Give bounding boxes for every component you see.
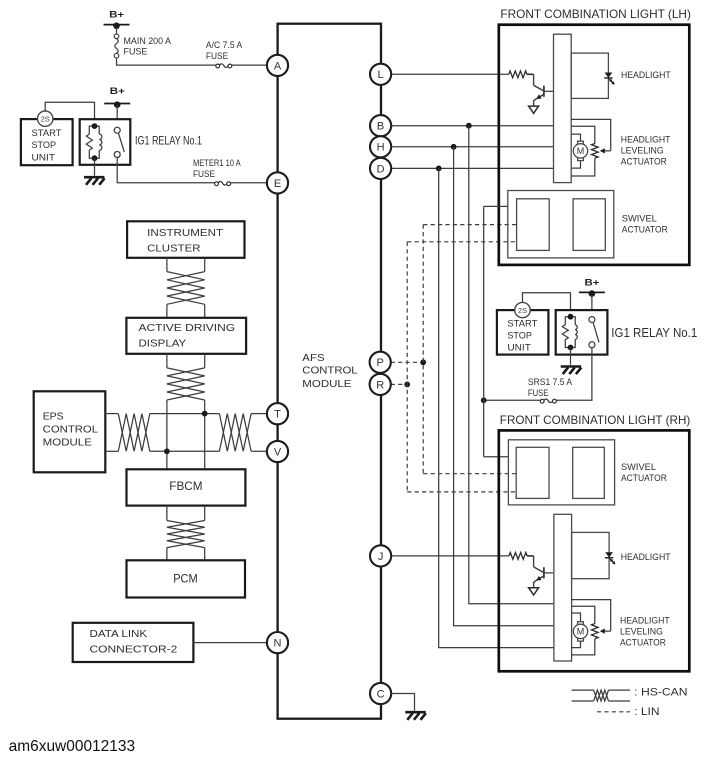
LIN to RH swivel (dashed)	[423, 473, 516, 475]
svg-text:MODULE: MODULE	[302, 378, 351, 390]
twisted pair HS-CAN (FBCM to PCM)	[167, 506, 205, 561]
label HEADLIGHT LEVELING ACTUATOR (LH)	[621, 134, 671, 166]
data link connector-2 box	[73, 623, 194, 662]
svg-text:INSTRUMENT: INSTRUMENT	[147, 227, 224, 239]
svg-text:D: D	[377, 163, 385, 175]
wire H branch down to RH	[454, 147, 554, 626]
label AFS CONTROL MODULE	[302, 352, 357, 390]
fuse METER1 10 A	[215, 182, 231, 186]
label DATA LINK CONNECTOR-2	[90, 628, 178, 656]
svg-text:E: E	[274, 178, 281, 190]
node N	[267, 632, 288, 653]
svg-text:B: B	[377, 121, 384, 133]
svg-text:IG1 RELAY No.1: IG1 RELAY No.1	[611, 325, 697, 340]
fuse SRS1 7.5 A	[540, 399, 556, 403]
headlight block (LH)	[571, 53, 608, 98]
svg-text:LEVELING: LEVELING	[620, 626, 663, 636]
motor (LH leveling)	[573, 141, 587, 160]
wire	[116, 106, 118, 127]
wire swivel feed (RH)	[484, 456, 509, 458]
label HEADLIGHT LEVELING ACTUATOR (RH)	[620, 615, 670, 647]
wire	[116, 27, 118, 34]
svg-text:STOP: STOP	[507, 331, 532, 341]
wire	[94, 158, 96, 175]
svg-text:B+: B+	[585, 277, 601, 288]
relay coil (right)	[562, 317, 577, 348]
swivel actuator outer box (RH)	[508, 440, 614, 505]
label START STOP UNIT (right)	[507, 319, 538, 353]
junction	[404, 382, 410, 388]
label ACTIVE DRIVING DISPLAY	[139, 322, 236, 349]
node H	[370, 136, 391, 157]
wire wiper feed (RH)	[572, 600, 611, 631]
svg-text:UNIT: UNIT	[32, 152, 56, 162]
wire	[556, 348, 592, 401]
battery terminal B+ (IG1 relay No.1 left)	[104, 86, 130, 108]
svg-text:am6xuw00012133: am6xuw00012133	[9, 738, 136, 755]
wire D branch down to RH	[439, 168, 554, 647]
svg-text:HEADLIGHT: HEADLIGHT	[620, 615, 670, 625]
svg-text:CONTROL: CONTROL	[43, 424, 98, 436]
node B	[370, 115, 391, 136]
wire motor feed (RH)	[572, 613, 581, 622]
wire pot feed (RH)	[572, 606, 595, 623]
label EPS CONTROL MODULE	[43, 411, 98, 449]
svg-text:2S: 2S	[41, 115, 50, 124]
wire pot return (RH)	[572, 639, 595, 655]
swivel actuator outer box (LH)	[508, 191, 614, 258]
swivel actuator coil 2 (LH)	[573, 199, 605, 251]
swivel actuator coil 1 (RH)	[516, 447, 549, 498]
svg-text:METER1 10 A: METER1 10 A	[193, 158, 241, 168]
svg-text:EPS: EPS	[43, 411, 64, 423]
label MAIN 200 A FUSE	[124, 36, 172, 57]
svg-text:IG1 RELAY No.1: IG1 RELAY No.1	[135, 135, 202, 147]
svg-text:SRS1 7.5 A: SRS1 7.5 A	[528, 377, 572, 387]
battery terminal B+ (main)	[104, 10, 130, 29]
svg-text:2S: 2S	[518, 306, 527, 315]
label START STOP UNIT (left)	[32, 128, 63, 162]
svg-text:START: START	[32, 128, 63, 138]
svg-text:ACTUATOR: ACTUATOR	[622, 224, 668, 234]
label METER1 10 A FUSE	[193, 158, 241, 179]
svg-text:R: R	[376, 379, 384, 391]
svg-text:MODULE: MODULE	[43, 437, 92, 449]
svg-text:FRONT COMBINATION LIGHT (RH): FRONT COMBINATION LIGHT (RH)	[500, 413, 691, 427]
node R	[370, 374, 391, 395]
relay switch (right)	[589, 317, 599, 348]
svg-text:M: M	[577, 627, 585, 637]
node D	[370, 158, 391, 179]
resistor (RH headlight driver)	[509, 553, 527, 560]
front combination light RH box	[499, 430, 690, 671]
resistor (LH headlight driver)	[509, 71, 527, 78]
swivel actuator coil 2 (RH)	[573, 447, 605, 498]
junction	[466, 123, 472, 129]
junction	[420, 359, 426, 365]
LIN wire node P (dashed)	[391, 361, 424, 363]
wire pot return (LH)	[571, 158, 595, 176]
twisted pair HS-CAN (display to FBCM)	[167, 354, 205, 470]
svg-text:FUSE: FUSE	[124, 47, 148, 57]
svg-text:AFS: AFS	[302, 352, 324, 364]
legend LIN dashed symbol	[597, 711, 630, 713]
wire node B to LH light	[391, 125, 553, 127]
wire	[484, 399, 541, 401]
twisted pair HS-CAN (EPS to T/V)	[105, 414, 267, 452]
svg-text:MAIN 200 A: MAIN 200 A	[124, 36, 172, 46]
AFS control module box	[278, 24, 381, 719]
wire swivel feed (LH)	[484, 205, 508, 207]
svg-text:FRONT COMBINATION LIGHT (LH): FRONT COMBINATION LIGHT (LH)	[500, 7, 691, 21]
wire	[117, 158, 215, 183]
svg-text:ACTUATOR: ACTUATOR	[621, 473, 667, 483]
label SWIVEL ACTUATOR (LH)	[622, 213, 668, 234]
svg-text:CONNECTOR-2: CONNECTOR-2	[90, 644, 178, 656]
connector 2S (left)	[38, 111, 53, 126]
ground (AFS C)	[405, 712, 426, 720]
wire	[230, 182, 267, 184]
svg-text:DATA LINK: DATA LINK	[90, 628, 148, 640]
wire node D to LH light	[391, 167, 553, 169]
LIN bus R vertical (dashed)	[406, 242, 408, 492]
wire	[591, 295, 593, 317]
legend HS-CAN twisted pair symbol	[572, 690, 630, 701]
node T	[267, 403, 288, 424]
svg-text:P: P	[377, 357, 384, 369]
svg-text:STOP: STOP	[32, 140, 57, 150]
svg-text:HEADLIGHT: HEADLIGHT	[621, 134, 671, 144]
svg-text:DISPLAY: DISPLAY	[139, 337, 187, 349]
headlight block (RH)	[572, 532, 610, 578]
svg-text:V: V	[274, 446, 282, 458]
svg-text:A/C 7.5 A: A/C 7.5 A	[206, 40, 242, 50]
PCM box	[127, 560, 246, 597]
svg-text:HEADLIGHT: HEADLIGHT	[621, 552, 671, 562]
label SRS1 7.5 A FUSE	[528, 377, 572, 398]
wire motor return (RH)	[572, 641, 581, 648]
connector bar (LH)	[554, 34, 572, 182]
potentiometer (RH leveling)	[592, 624, 599, 639]
junction	[451, 144, 457, 150]
LED headlight (RH)	[605, 552, 613, 557]
svg-text:SWIVEL: SWIVEL	[622, 213, 657, 223]
LIN wire node R (dashed)	[391, 383, 408, 385]
svg-text:FUSE: FUSE	[206, 51, 228, 61]
svg-text:CONTROL: CONTROL	[302, 365, 357, 377]
ground (left relay)	[84, 177, 105, 185]
svg-text:B+: B+	[109, 10, 125, 21]
wire	[391, 694, 414, 711]
relay switch (left)	[114, 127, 124, 157]
fuse MAIN 200 A	[114, 34, 119, 58]
wire motor feed (LH)	[571, 134, 580, 141]
wire node H to LH light	[391, 146, 553, 148]
FBCM box	[127, 469, 246, 505]
wire	[523, 293, 571, 317]
start stop unit box (left)	[21, 119, 73, 165]
svg-text:: HS-CAN: : HS-CAN	[634, 687, 687, 699]
LIN to LH swivel (dashed)	[423, 224, 516, 226]
LIN bus P vertical (dashed)	[422, 225, 424, 474]
svg-text:ACTIVE DRIVING: ACTIVE DRIVING	[139, 322, 236, 334]
wire swivel bus vertical	[483, 206, 485, 456]
svg-text:FUSE: FUSE	[193, 169, 215, 179]
junction	[202, 411, 208, 417]
svg-text:A: A	[274, 60, 282, 72]
connector 2S (right)	[515, 302, 530, 317]
twisted pair HS-CAN (cluster to display)	[167, 258, 205, 318]
wire	[117, 58, 217, 65]
svg-text:B+: B+	[110, 86, 126, 97]
svg-text:J: J	[378, 551, 384, 563]
relay coil (left)	[86, 126, 102, 158]
svg-text:C: C	[377, 688, 385, 700]
label A/C 7.5 A FUSE	[206, 40, 242, 61]
junction	[481, 397, 487, 403]
motor (RH leveling)	[573, 622, 587, 641]
wire	[45, 102, 94, 126]
svg-text:HEADLIGHT: HEADLIGHT	[621, 70, 671, 80]
svg-text:N: N	[274, 638, 282, 650]
svg-text:CLUSTER: CLUSTER	[147, 242, 201, 254]
node A	[267, 55, 288, 76]
svg-text:T: T	[274, 409, 281, 421]
svg-text:UNIT: UNIT	[507, 343, 531, 353]
node E	[267, 172, 288, 193]
swivel actuator coil 1 (LH)	[517, 199, 550, 251]
wire pot feed (LH)	[571, 126, 595, 143]
wire node L to LH headlight	[391, 73, 509, 75]
svg-text:H: H	[377, 142, 385, 154]
relay IG1 No.1 box (left)	[80, 119, 131, 165]
start stop unit box (right)	[497, 310, 549, 355]
label SWIVEL ACTUATOR (RH)	[621, 462, 667, 483]
battery terminal B+ (IG1 relay No.1 right)	[579, 277, 605, 297]
svg-text:FUSE: FUSE	[528, 388, 549, 398]
svg-text:PCM: PCM	[173, 572, 197, 586]
node C	[370, 683, 391, 704]
LIN to LH swivel lower (dashed)	[407, 241, 516, 243]
transistor (LH headlight driver)	[534, 74, 554, 106]
active driving display box	[126, 318, 246, 354]
junction	[164, 448, 170, 454]
instrument cluster box	[127, 221, 244, 257]
node P	[370, 352, 391, 373]
front combination light LH box	[499, 25, 690, 265]
transistor (RH headlight driver)	[534, 556, 554, 588]
LED headlight (LH)	[605, 73, 613, 78]
potentiometer (LH leveling)	[592, 144, 599, 159]
fuse A/C 7.5 A	[216, 64, 232, 68]
svg-text:ACTUATOR: ACTUATOR	[620, 637, 666, 647]
wire wiper feed (LH)	[571, 119, 611, 150]
wire	[527, 73, 534, 75]
ground (right relay)	[561, 367, 582, 375]
connector bar (RH)	[554, 514, 572, 661]
svg-text:L: L	[378, 69, 384, 81]
svg-text:FBCM: FBCM	[169, 479, 202, 493]
node J	[370, 545, 391, 566]
svg-text:LEVELING: LEVELING	[621, 145, 664, 155]
wire node J to RH headlight	[391, 555, 509, 557]
svg-text:ACTUATOR: ACTUATOR	[621, 156, 667, 166]
wire motor return (LH)	[571, 160, 580, 168]
wire	[232, 64, 267, 66]
svg-text:START: START	[507, 319, 538, 329]
wire B branch down to RH	[469, 126, 554, 604]
wire	[193, 642, 267, 644]
wire	[527, 555, 534, 557]
svg-text:M: M	[577, 146, 585, 156]
EPS control module box	[34, 391, 106, 472]
wire	[570, 348, 572, 365]
node V	[267, 441, 288, 462]
svg-text:: LIN: : LIN	[634, 706, 659, 718]
svg-text:SWIVEL: SWIVEL	[621, 462, 656, 472]
junction	[436, 166, 442, 172]
label INSTRUMENT CLUSTER	[147, 227, 224, 254]
LIN to RH swivel lower (dashed)	[407, 491, 516, 493]
relay IG1 No.1 box (right)	[556, 310, 608, 355]
node L	[370, 64, 391, 85]
